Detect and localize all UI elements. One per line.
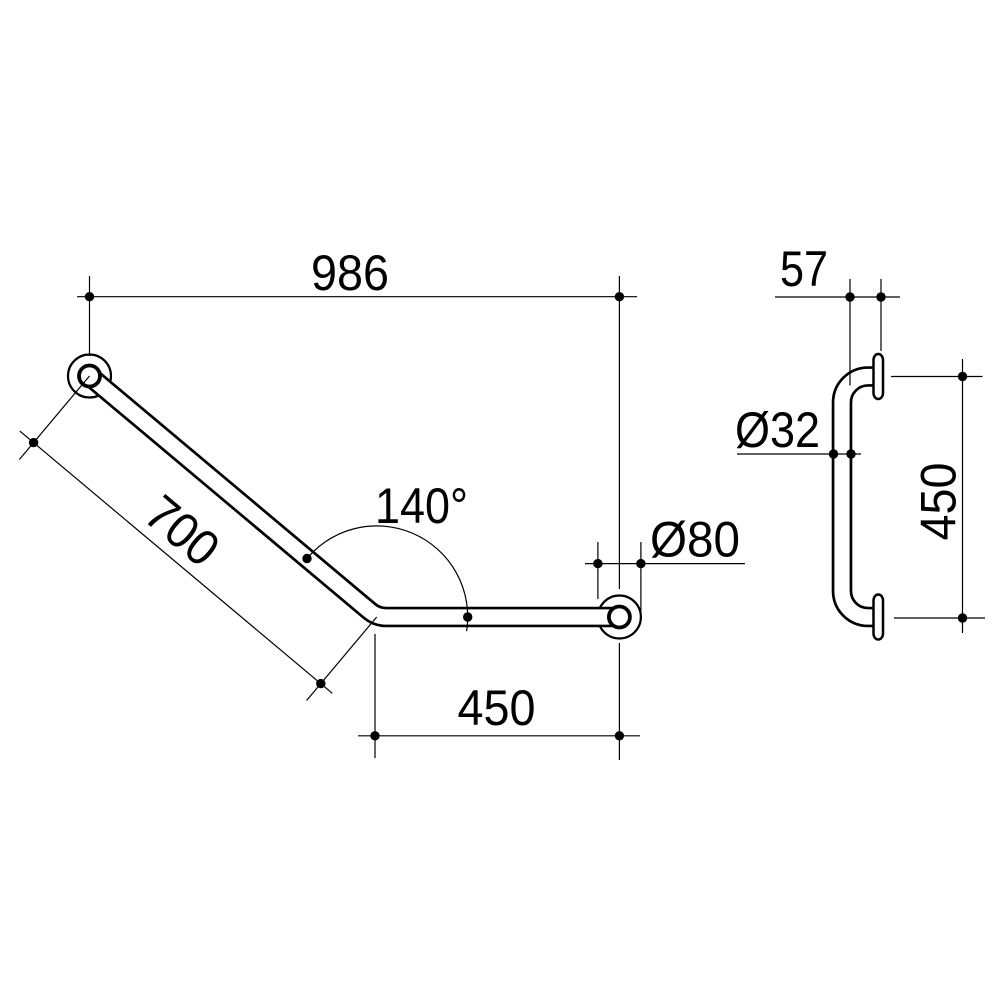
extension line, 450 top (from top flange) <box>891 376 983 378</box>
dim dot, O80 right <box>636 559 645 568</box>
extension line, 57 left (tube face) <box>849 279 851 386</box>
dim dot, 140 arc on horizontal tube <box>463 612 472 621</box>
wall flange F1 (side view, seen edge-on, top) <box>874 354 884 399</box>
extension line, 986 left (from flange F1 up) <box>89 276 91 356</box>
extension line, O80 left tangent of flange F2 <box>597 542 599 599</box>
dim dot, 700 lower <box>316 679 325 688</box>
svg-text:986: 986 <box>311 245 389 301</box>
grab rail tube (main view, 140-degree bent tube) <box>90 376 620 617</box>
svg-text:140°: 140° <box>375 478 468 534</box>
dim dot, 986 right <box>615 292 624 301</box>
svg-text:57: 57 <box>780 241 828 297</box>
svg-text:450: 450 <box>911 463 967 541</box>
extension line, 700 lower (perpendicular from bend vertex) <box>307 617 377 701</box>
extension line, O80 right tangent of flange F2 <box>640 542 642 611</box>
dimension line 450 (side view, vertical) <box>962 359 964 633</box>
dim dot, 450 side bottom <box>958 613 967 622</box>
wall flange F2 (side view, seen edge-on, bottom) <box>874 595 884 640</box>
dim dot, 700 upper <box>29 438 38 447</box>
extension line, 57 right (flange face) <box>880 279 882 351</box>
dimension line 57 <box>775 296 900 298</box>
tube socket ring on flange F2 <box>609 607 630 628</box>
dimension line 700 (parallel to sloped tube) <box>20 431 333 693</box>
tube socket ring on flange F1 <box>79 366 100 387</box>
dim dot, 986 left <box>85 292 94 301</box>
angle dimension arc 140 degrees <box>304 526 468 631</box>
wall flange F1 (left, outer plate circle) <box>68 355 111 398</box>
svg-text:450: 450 <box>458 680 536 736</box>
dim dot, O32 right <box>846 449 855 458</box>
dimension line O80 <box>585 563 745 565</box>
dim dot, 140 arc on sloped tube <box>302 554 311 563</box>
svg-text:Ø32: Ø32 <box>735 402 820 458</box>
extension line, 450 right (down from flange F2) <box>618 643 620 760</box>
extension line, 450 bottom (from bottom flange) <box>894 617 985 619</box>
dim dot, 57 right <box>876 292 885 301</box>
extension line, 986 right (from flange F2 up) <box>618 276 620 589</box>
extension line, 450 left (down from bend vertex) <box>374 634 376 758</box>
dim dot, O80 left <box>593 559 602 568</box>
grab rail tube (side view, wall projection) <box>842 377 874 618</box>
dim dot, 450 side top <box>958 372 967 381</box>
dim dot, 450 bottom right <box>615 731 624 740</box>
dimension line 450 (bottom) <box>358 735 640 737</box>
dimension line 986 <box>77 296 637 298</box>
svg-text:Ø80: Ø80 <box>650 512 740 568</box>
wall flange F2 (right, outer plate circle) <box>598 596 641 639</box>
dimension line O32 (across tube) <box>737 453 861 455</box>
dim dot, 450 bottom left <box>370 731 379 740</box>
dim dot, O32 left <box>829 449 838 458</box>
dim dot, 57 left <box>845 292 854 301</box>
extension line, 700 upper (perpendicular from flange F1 centre) <box>19 376 89 460</box>
